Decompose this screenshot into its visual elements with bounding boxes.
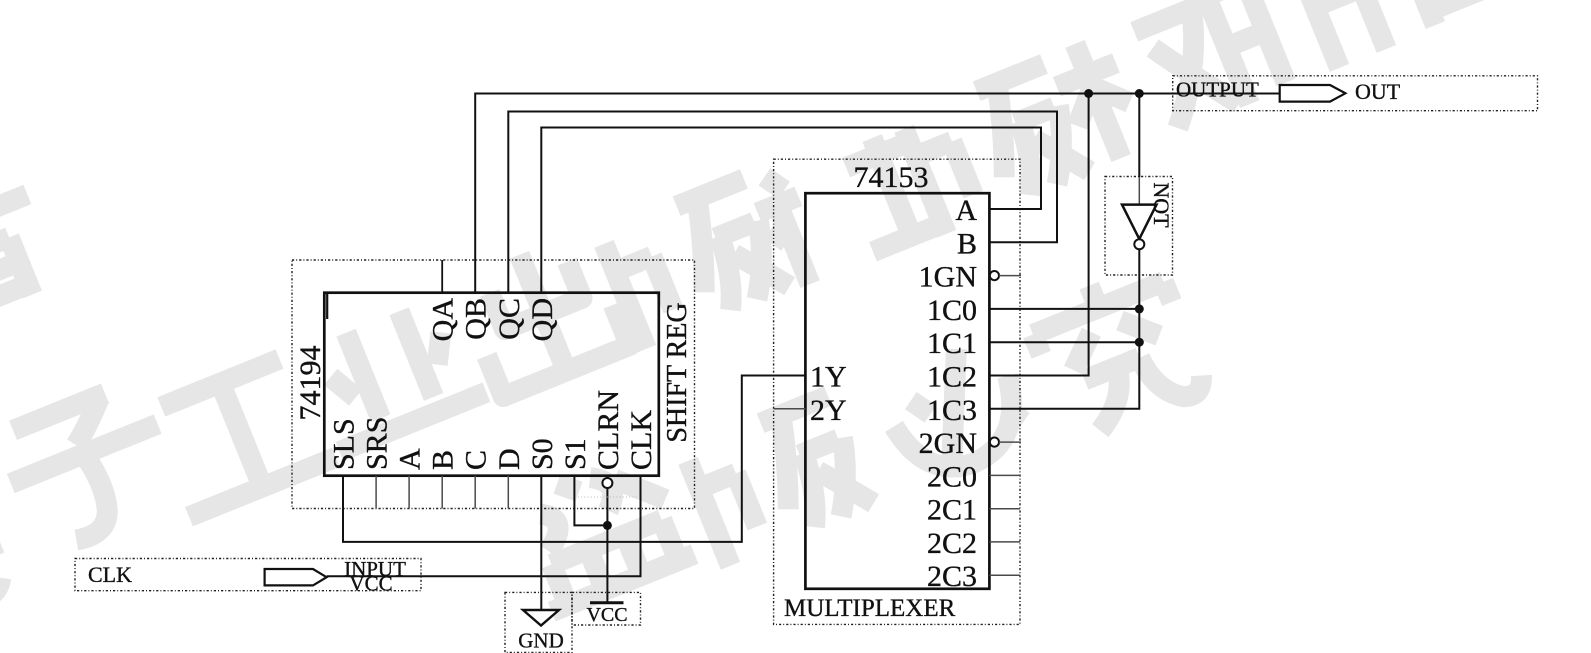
svg-text:VCC: VCC [349,572,392,596]
svg-text:CLK: CLK [88,562,132,587]
svg-text:2C3: 2C3 [927,560,977,593]
svg-text:SLS: SLS [328,418,361,470]
svg-text:74153: 74153 [854,161,929,194]
svg-text:QB: QB [460,298,493,340]
svg-text:1GN: 1GN [919,261,977,294]
svg-text:NOT: NOT [1149,182,1174,228]
svg-text:A: A [394,448,427,470]
svg-text:2Y: 2Y [810,394,847,427]
svg-text:SHIFT REG: SHIFT REG [662,302,693,442]
svg-text:2C1: 2C1 [927,494,977,527]
svg-text:2C0: 2C0 [927,460,977,493]
svg-text:S0: S0 [526,438,559,470]
svg-text:1C1: 1C1 [927,327,977,360]
svg-text:OUT: OUT [1355,79,1401,104]
svg-text:CLK: CLK [625,410,658,470]
svg-text:OUTPUT: OUTPUT [1176,78,1259,102]
svg-text:QD: QD [526,298,559,341]
svg-text:QC: QC [493,298,526,340]
svg-text:MULTIPLEXER: MULTIPLEXER [784,595,956,622]
svg-text:B: B [427,450,460,470]
svg-text:C: C [460,450,493,470]
svg-text:B: B [957,227,977,260]
svg-text:SRS: SRS [361,417,394,470]
svg-text:D: D [493,448,526,470]
svg-text:QA: QA [427,298,460,342]
svg-text:S1: S1 [559,438,592,470]
svg-text:2GN: 2GN [919,427,977,460]
svg-text:A: A [955,194,977,227]
svg-text:1C0: 1C0 [927,294,977,327]
svg-text:2C2: 2C2 [927,527,977,560]
svg-text:1C2: 1C2 [927,361,977,394]
svg-text:1Y: 1Y [810,361,847,394]
svg-text:74194: 74194 [294,346,327,421]
svg-text:VCC: VCC [586,604,627,626]
svg-text:CLRN: CLRN [592,390,625,470]
svg-text:GND: GND [518,629,564,653]
svg-text:1C3: 1C3 [927,394,977,427]
